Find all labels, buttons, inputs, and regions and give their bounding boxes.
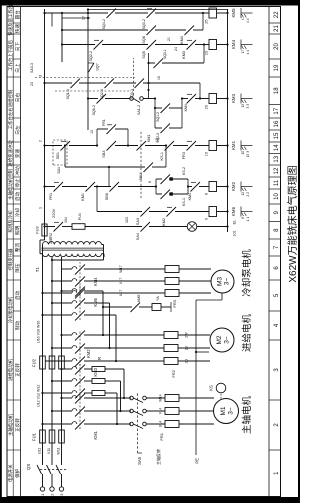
svg-text:KM1: KM1 <box>147 135 151 142</box>
junction M1 tap 3 <box>60 397 62 399</box>
selector SA1-2 contacts <box>130 97 134 101</box>
contact SQ2-3 <box>161 124 171 134</box>
wire control neutral rail <box>227 9 229 232</box>
label strip 冷却 <box>13 203 20 205</box>
ground PE bus <box>195 300 197 455</box>
label strip 变速 <box>13 141 20 143</box>
column number 16 <box>269 117 281 119</box>
wire rail right lower <box>88 9 228 11</box>
svg-text:KM4: KM4 <box>231 39 236 49</box>
label strip 降压 <box>13 255 20 257</box>
column number 2 <box>269 399 281 401</box>
svg-text:进给电机: 进给电机 <box>241 314 253 353</box>
column number 7 <box>269 238 281 240</box>
fuse FU1 pole 1 <box>40 430 46 443</box>
junction M3 tap 1 <box>41 292 43 294</box>
wire W11 <box>61 443 63 459</box>
wire rung EL mid <box>85 226 142 228</box>
svg-text:KS-1: KS-1 <box>160 152 164 160</box>
resistor R 3 <box>92 367 105 372</box>
svg-text:启动: 启动 <box>14 291 21 301</box>
svg-text:2 2: 2 2 <box>246 192 250 197</box>
wire rung EL top <box>45 226 56 228</box>
svg-text:变速: 变速 <box>14 149 21 159</box>
svg-text:104: 104 <box>64 217 68 223</box>
thermal relay FR1 heater 3 <box>165 395 179 402</box>
svg-text:SQ3-2: SQ3-2 <box>142 19 146 29</box>
svg-text:保护: 保护 <box>14 468 21 478</box>
link KM1 <box>79 393 81 429</box>
wire M3 branch 3 <box>62 268 71 270</box>
svg-text:21: 21 <box>274 25 280 32</box>
wire rung aux1 b <box>79 82 106 84</box>
speed relay KS <box>220 393 222 399</box>
electromagnet YA <box>152 304 161 311</box>
wire U11 <box>42 443 44 459</box>
svg-text:SA5: SA5 <box>137 456 142 465</box>
wire rung KM2 b <box>118 186 156 188</box>
svg-text:9: 9 <box>205 218 209 220</box>
contactor KM3 main contact 1 <box>70 360 72 362</box>
wire rung KM2 top <box>45 186 56 188</box>
wire SB2 rung b <box>152 166 166 168</box>
wire bus L1 seg <box>42 245 44 431</box>
wire M1 branch 2 <box>52 410 70 412</box>
wire rung KM6 b <box>149 211 168 213</box>
label strip 主轴电动机 <box>7 399 13 401</box>
svg-text:SA1: SA1 <box>57 167 61 174</box>
svg-text:FU1: FU1 <box>32 432 37 441</box>
svg-text:3~: 3~ <box>228 407 235 415</box>
svg-text:16: 16 <box>157 76 161 80</box>
svg-text:8: 8 <box>148 181 152 183</box>
svg-text:FR1: FR1 <box>102 119 106 126</box>
coil KM3 <box>209 94 217 104</box>
wire rung aux1 d <box>143 82 200 84</box>
svg-text:KM3: KM3 <box>182 51 186 59</box>
svg-text:U11: U11 <box>38 448 42 454</box>
svg-text:KM6: KM6 <box>231 206 236 216</box>
contactor KM5 aux for YA <box>131 303 141 313</box>
thermal contact FR2 ctl <box>54 222 64 232</box>
svg-text:U12 V12 W12: U12 V12 W12 <box>37 385 41 407</box>
svg-text:冷却泵电动机: 冷却泵电动机 <box>7 296 14 323</box>
junction coil KM4 <box>226 43 228 45</box>
label strip 冷却泵电动机 <box>7 279 13 281</box>
svg-text:SQ6-2: SQ6-2 <box>92 105 96 115</box>
svg-text:10: 10 <box>274 193 280 200</box>
svg-text:R: R <box>97 357 102 360</box>
wire rung KM4 c <box>195 44 209 46</box>
border band portrait bottom <box>0 497 300 503</box>
svg-text:13: 13 <box>241 104 245 108</box>
wire R merge 1 <box>116 393 118 424</box>
wire M2 ground tail <box>196 351 209 353</box>
contactor KM4 main contact 1 <box>70 314 72 316</box>
svg-text:SQ2-3: SQ2-3 <box>156 133 160 143</box>
wire bus L3 seg <box>61 257 63 430</box>
wire rung KM1 top <box>45 145 63 147</box>
link KM3 <box>79 330 81 366</box>
svg-text:13: 13 <box>274 155 280 162</box>
column number 21 <box>269 22 281 24</box>
wire SB2 rung <box>64 146 66 168</box>
wire rung KM4 a <box>102 44 148 46</box>
coil KM1 <box>209 141 217 151</box>
wire rung KM1 c <box>145 145 166 147</box>
border line portrait right <box>298 0 300 503</box>
svg-text:FR3: FR3 <box>172 299 177 307</box>
contact SQ6 <box>147 26 157 36</box>
svg-text:V14: V14 <box>159 408 163 414</box>
thermal relay FR3 heater 3 <box>165 266 179 273</box>
thermal relay FR2 heater 3 <box>164 332 178 339</box>
wire KM4 cross 3 <box>102 291 104 335</box>
svg-text:T1: T1 <box>35 267 40 273</box>
contact KS-1 branch <box>156 193 162 195</box>
column number 3 <box>269 339 281 341</box>
wire rung KM1 a <box>69 145 97 147</box>
wire rung KM3 top <box>88 98 98 100</box>
svg-text:圆台: 圆台 <box>14 10 21 20</box>
number strip top line <box>268 7 270 497</box>
column number 9 <box>269 203 281 205</box>
svg-text:KM1: KM1 <box>93 430 98 439</box>
limit switch SQ7 on rail <box>89 63 95 72</box>
svg-text:23: 23 <box>30 82 34 86</box>
thermal contact FR1 b <box>107 125 117 135</box>
svg-text:制动: 制动 <box>14 321 21 331</box>
svg-text:照明及冷却: 照明及冷却 <box>7 210 14 233</box>
wire phase 3 in <box>61 477 63 487</box>
svg-text:SQ5: SQ5 <box>142 51 146 59</box>
wire rung aux1 c <box>113 82 136 84</box>
switch SA5 pole 1 <box>130 422 134 426</box>
junction M1 tap 2 <box>51 410 53 412</box>
fuse FU2 pole 2 <box>49 356 55 369</box>
svg-text:SQ4-2: SQ4-2 <box>102 19 106 29</box>
junction M2 tap 2 <box>51 347 53 349</box>
transformer T1 primary <box>43 242 102 245</box>
column number 20 <box>269 33 281 35</box>
label strip 整流 <box>13 238 20 240</box>
svg-text:U17: U17 <box>119 290 123 297</box>
coil KM2 <box>209 182 217 192</box>
terminal L3 <box>59 487 63 491</box>
resistor R 1 <box>92 391 105 396</box>
wire KM2 branch 2 <box>52 380 70 382</box>
contact KM4 aux <box>185 26 195 36</box>
svg-text:X62W万能铣床电气原理图: X62W万能铣床电气原理图 <box>286 165 299 282</box>
svg-text:FU2: FU2 <box>32 358 37 367</box>
junction coil KM6 <box>226 210 228 212</box>
wire KS parallel bottom <box>187 179 189 194</box>
contact SQ3-2 <box>147 9 157 19</box>
wire rung KM6 <box>97 211 142 213</box>
column number 5 <box>269 279 281 281</box>
wire bus L2 seg <box>51 257 53 430</box>
contactor KM3 main contact 2 <box>70 347 72 349</box>
label strip 制动 <box>13 310 20 312</box>
svg-text:19: 19 <box>274 64 280 71</box>
column number 19 <box>269 58 281 60</box>
transformer T1 secondary <box>43 254 102 257</box>
link SA5 <box>137 392 139 453</box>
wire R merge 3 <box>123 369 125 398</box>
thermal relay FR2 heater 2 <box>164 345 178 352</box>
svg-text:11: 11 <box>274 179 280 186</box>
wire control hot rail <box>39 240 41 254</box>
svg-text:主轴电机: 主轴电机 <box>241 396 253 435</box>
svg-text:12: 12 <box>241 192 245 196</box>
motor M2 <box>210 328 234 352</box>
junction KM4 tap 3 <box>60 290 62 292</box>
svg-text:启动: 启动 <box>14 192 21 202</box>
wire rung KM5 a <box>115 12 148 14</box>
wire rung KM4 b <box>155 44 188 46</box>
svg-text:M1: M1 <box>220 406 227 415</box>
wire rung KM3 b <box>143 98 155 100</box>
wire stub y52 <box>51 13 53 27</box>
junction KM4 tap 2 <box>51 302 53 304</box>
fuse FU1 pole 3 <box>59 430 65 443</box>
column number 1 <box>269 449 281 451</box>
link stop buttons dashed <box>140 131 142 198</box>
column number 12 <box>269 164 281 166</box>
thermal contact FR3 b <box>187 141 197 151</box>
label strip 电源开关 <box>7 449 13 451</box>
svg-text:U16 V16 W16: U16 V16 W16 <box>37 321 41 343</box>
wire rung KM1 e <box>195 145 209 147</box>
svg-text:向上: 向上 <box>14 63 20 73</box>
wire rung EL top b <box>62 226 72 228</box>
contactor KM4 main contact 3 <box>70 290 72 292</box>
wire phase 1 in <box>42 477 44 487</box>
junction M1 tap 1 <box>41 423 43 425</box>
junction KM2 tap 3 <box>60 368 62 370</box>
svg-text:15: 15 <box>274 132 280 139</box>
switch SA5 pole 3 <box>130 396 134 400</box>
wire drop x440 b <box>162 62 204 64</box>
svg-text:3~: 3~ <box>224 336 231 344</box>
svg-text:220V: 220V <box>51 208 56 218</box>
contactor KM2 main contact 3 <box>70 368 72 370</box>
wire KM6 link <box>96 187 98 212</box>
svg-text:工作台上下前后: 工作台上下前后 <box>7 40 14 71</box>
svg-text:2: 2 <box>39 140 43 142</box>
svg-text:6: 6 <box>241 217 245 219</box>
svg-text:停止: 停止 <box>14 178 21 188</box>
wire feed bus <box>148 53 150 90</box>
svg-text:KM2: KM2 <box>231 181 236 191</box>
function strip mid line <box>12 7 14 497</box>
column number 13 <box>269 153 281 155</box>
switch SA4 lamp <box>141 222 151 232</box>
wire KM2 branch 3 <box>62 368 71 370</box>
wire R merge 2 <box>120 381 122 411</box>
label strip 控制变压器 <box>7 238 13 240</box>
svg-text:V11: V11 <box>47 448 51 454</box>
svg-text:KM1: KM1 <box>188 193 192 200</box>
fuse FU2 pole 3 <box>59 356 65 369</box>
svg-text:14: 14 <box>274 144 280 151</box>
label strip 向右 <box>13 76 20 78</box>
terminal stub KM3 <box>240 94 242 104</box>
wire rung aux3 b <box>155 29 186 31</box>
fuse FU2 pole 1 <box>40 356 46 369</box>
thermal relay FR1 heater 1 <box>165 421 179 428</box>
svg-text:3~: 3~ <box>224 278 231 286</box>
contact SQ3-1 <box>135 79 145 89</box>
contact SQ4-2 <box>107 9 117 19</box>
button SB2 stop <box>144 163 154 173</box>
svg-text:SA3: SA3 <box>136 218 140 225</box>
svg-text:20: 20 <box>274 43 280 50</box>
svg-text:21: 21 <box>167 37 171 41</box>
fuse FU6 control <box>42 224 47 236</box>
svg-text:主轴反转: 主轴反转 <box>155 449 161 465</box>
svg-text:U14: U14 <box>159 421 163 428</box>
svg-text:SB1: SB1 <box>56 152 60 159</box>
wire lamp to rail <box>197 226 228 228</box>
svg-text:KS-2: KS-2 <box>182 167 186 175</box>
fuse FU1 pole 2 <box>49 430 55 443</box>
contact KS-2 branch <box>156 178 162 180</box>
svg-text:SB6: SB6 <box>105 193 109 200</box>
junction coil KM1 <box>226 144 228 146</box>
contact KS-1 <box>165 141 175 151</box>
svg-text:25: 25 <box>205 20 209 24</box>
column number 8 <box>269 221 281 223</box>
svg-text:降压: 降压 <box>14 263 21 273</box>
svg-text:SQ1-1: SQ1-1 <box>66 89 70 99</box>
wire YA a <box>139 306 152 308</box>
label strip 工作台左右进给控制 <box>7 76 13 78</box>
svg-text:FR1: FR1 <box>49 193 53 200</box>
label strip 工作台上下前后 <box>7 33 13 35</box>
junction KM4 tap 1 <box>41 314 43 316</box>
column number 17 <box>269 104 281 106</box>
contact SQ1-2 <box>161 104 171 114</box>
terminal stub KM6 <box>240 207 242 217</box>
wire rung KM1 d <box>173 145 188 147</box>
label strip 主轴电动机控制 <box>7 164 13 166</box>
wire rail mid1 <box>61 13 63 62</box>
link buttons dashed vertical 2 <box>55 90 130 92</box>
motor M1 <box>214 399 239 424</box>
wire rail mid2 <box>87 10 89 131</box>
svg-text:SA4: SA4 <box>136 233 140 240</box>
svg-text:SQ6: SQ6 <box>142 36 146 44</box>
svg-text:KM3: KM3 <box>231 93 236 103</box>
svg-text:SQ2-2: SQ2-2 <box>89 51 93 61</box>
svg-text:M2: M2 <box>216 335 223 344</box>
label strip 快速 <box>13 22 20 24</box>
switch QS pole 2 <box>51 474 53 477</box>
switch SA5 pole 2 <box>130 409 134 413</box>
terminal L2 <box>50 487 54 491</box>
svg-text:22: 22 <box>274 11 280 18</box>
wire KM4 cross 1 <box>115 315 117 361</box>
svg-text:主轴电动机控制: 主轴电动机控制 <box>7 169 14 200</box>
junction M2 tap 3 <box>60 334 62 336</box>
wire KM4 branch 1 <box>43 314 71 316</box>
svg-text:SB3: SB3 <box>102 151 106 158</box>
svg-text:16: 16 <box>274 120 280 127</box>
wire M3 branch 2 <box>52 280 70 282</box>
contact KM3 interlock <box>187 40 197 50</box>
label strip 照明 <box>13 221 20 223</box>
wire rung KM6 c <box>175 211 209 213</box>
svg-text:4: 4 <box>241 18 245 20</box>
wire link SB6 <box>108 167 110 187</box>
contact KM4 interlock <box>187 94 197 104</box>
svg-text:KM1: KM1 <box>231 140 236 150</box>
svg-text:10: 10 <box>241 151 245 155</box>
svg-text:3: 3 <box>39 75 43 77</box>
junction coil KM3 <box>226 97 228 99</box>
contactor KM3 main contact 3 <box>70 334 72 336</box>
lamp EL <box>187 222 197 232</box>
contactor KM6 main contact 3 <box>70 268 72 270</box>
svg-text:17: 17 <box>274 107 280 114</box>
svg-text:4 4: 4 4 <box>246 50 250 55</box>
svg-text:快速及圆工作台: 快速及圆工作台 <box>7 4 14 35</box>
svg-text:20: 20 <box>205 105 209 109</box>
thermal contact FR1 ctl <box>54 182 64 192</box>
svg-text:FR3: FR3 <box>182 152 186 159</box>
svg-text:4 4: 4 4 <box>246 18 250 23</box>
switch SB6 <box>110 182 120 192</box>
svg-text:SQ2-1: SQ2-1 <box>100 89 104 99</box>
contactor KM4 main contact 2 <box>70 302 72 304</box>
contactor KM1 main contact 2 <box>70 410 72 412</box>
svg-text:24: 24 <box>174 47 178 51</box>
function strip bottom line <box>20 7 22 497</box>
wire KM4 branch 3 <box>62 290 71 292</box>
wire YA tap <box>103 306 132 308</box>
svg-text:冲动: 冲动 <box>14 166 21 176</box>
terminal stub KM5 <box>240 8 242 18</box>
coil KM6 <box>209 207 217 217</box>
resistor R 2 <box>92 379 105 384</box>
wire drop x440 <box>149 62 156 64</box>
svg-text:SA3-3: SA3-3 <box>30 63 34 73</box>
svg-text:SQ7: SQ7 <box>96 63 100 70</box>
svg-text:W11: W11 <box>57 447 61 454</box>
svg-text:KM4: KM4 <box>184 104 188 111</box>
svg-text:FU3: FU3 <box>36 226 40 233</box>
terminal stub KM1 <box>240 141 242 151</box>
wire KM4 cross 2 <box>109 303 111 348</box>
label strip 正反转 <box>13 339 20 341</box>
thermal relay FR1 heater 2 <box>165 408 179 415</box>
thermal relay FR2 heater 1 <box>164 358 178 365</box>
number strip bottom line <box>280 7 282 497</box>
button SB1 stop <box>61 141 71 151</box>
column number 11 <box>269 176 281 178</box>
switch QS link <box>40 469 68 471</box>
thermal relay FR3 heater 2 <box>165 278 179 285</box>
label strip 照明及冷却 <box>7 203 13 205</box>
svg-text:冷却泵电机: 冷却泵电机 <box>241 249 253 297</box>
svg-text:工作台左右进给控制: 工作台左右进给控制 <box>7 89 14 129</box>
junction coil KM2 <box>226 185 228 187</box>
svg-text:向左: 向左 <box>14 125 20 135</box>
svg-text:进给电动机: 进给电动机 <box>7 358 14 381</box>
svg-text:PE: PE <box>195 458 200 464</box>
wire rung KM2 a <box>94 186 111 188</box>
